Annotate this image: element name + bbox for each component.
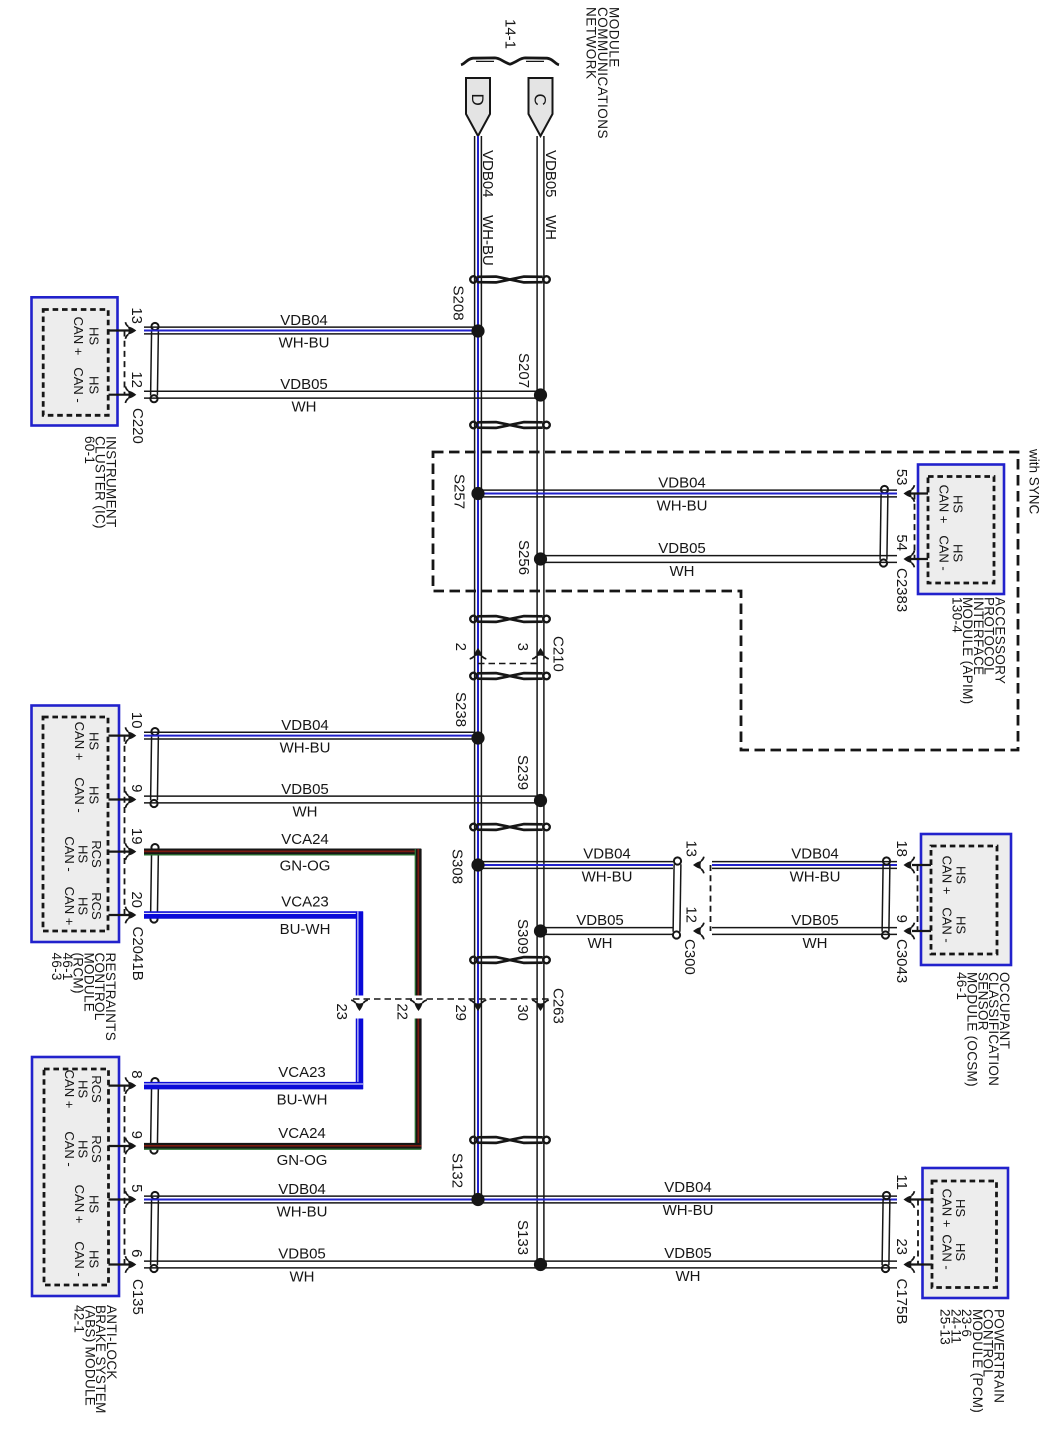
pin label ABS RCS HS CAN+ (62, 1070, 104, 1109)
connector label C175B (893, 1279, 910, 1325)
connector C220 symbol (150, 323, 158, 402)
label VCA23 (281, 894, 329, 911)
label VDB05 (280, 376, 328, 393)
label WH (670, 563, 695, 580)
label VDB04 (280, 312, 328, 329)
pin label OCSM HS CAN- (940, 907, 969, 942)
pin number 8 (ABS) (128, 1070, 145, 1078)
svg-text:VDB05: VDB05 (664, 1245, 712, 1262)
label VDB05 (576, 912, 624, 929)
pin number 9 (OCSM) (893, 915, 910, 923)
pin 13 stub (109, 329, 135, 331)
svg-text:13: 13 (128, 307, 145, 324)
splice label S238 (452, 692, 469, 727)
svg-text:S238: S238 (452, 692, 469, 727)
splice label S309 (514, 919, 531, 954)
label VDB04 (583, 846, 631, 863)
splice S208 (471, 324, 484, 337)
pin 9 arrow (ABS) (125, 1138, 136, 1155)
svg-text:18: 18 (893, 840, 910, 857)
wire VDB04 WH-BU (RCM pin10 to S238) (144, 732, 478, 739)
splice S257 (471, 487, 484, 500)
module name INSTRUMENT CLUSTER (IC) 60-1 (82, 436, 119, 529)
pin number 9 (ABS) (128, 1131, 145, 1139)
wire VDB05 WH (S309 to C300) (544, 928, 673, 935)
pin number 12 (128, 371, 145, 388)
svg-text:S257: S257 (451, 474, 468, 509)
twisted-pair symbol 3 (470, 616, 550, 623)
label WH-BU (280, 740, 331, 757)
wire VDB04 WH-BU (S257 to APIM pin53) (478, 490, 897, 497)
svg-text:BU-WH: BU-WH (280, 921, 331, 938)
svg-text:11: 11 (893, 1174, 910, 1190)
wire VCA23 BU-WH (ABS pin8, horizontal) (144, 1084, 363, 1086)
svg-text:S132: S132 (449, 1153, 466, 1188)
module box Instrument Cluster (IC) (32, 297, 118, 425)
label WH-BU (right) (663, 1202, 714, 1219)
svg-text:WH: WH (293, 804, 318, 821)
connector C300 symbol (673, 857, 681, 938)
label VDB04 (791, 846, 839, 863)
pin number 6 (ABS) (128, 1249, 145, 1257)
connector C3043 symbol (882, 857, 890, 938)
svg-text:23: 23 (893, 1238, 910, 1255)
svg-text:WH-BU: WH-BU (663, 1202, 714, 1219)
splice S133 (534, 1258, 547, 1271)
svg-text:S239: S239 (514, 755, 531, 790)
svg-text:8: 8 (128, 1070, 145, 1078)
svg-text:C2383: C2383 (893, 568, 910, 612)
svg-text:S207: S207 (515, 353, 532, 388)
pin 22 arrow (C263) (410, 1000, 427, 1011)
dashed pin line C300 (710, 865, 712, 931)
svg-text:19: 19 (128, 828, 145, 845)
svg-text:VDB04: VDB04 (664, 1179, 712, 1196)
connector label C2041B (129, 927, 146, 981)
svg-text:WH: WH (292, 399, 317, 416)
module name POWERTRAIN CONTROL MODULE (PCM) 23-6 24-11 25-13 (938, 1309, 1007, 1413)
pin number 13 (C300) (683, 840, 700, 857)
pin 12 arrow (C300) (693, 923, 704, 940)
svg-text:S133: S133 (514, 1220, 531, 1255)
splice S256 (534, 552, 547, 565)
pin number 13 (128, 307, 145, 324)
svg-text:S309: S309 (514, 919, 531, 954)
svg-text:VDB04: VDB04 (280, 312, 328, 329)
pin label RCM RCS HS CAN- (62, 836, 104, 871)
pin number 3 (514, 643, 531, 651)
svg-text:WH-BU: WH-BU (280, 740, 331, 757)
dashed region with SYNC (433, 452, 1018, 750)
pin number 2 (452, 643, 469, 651)
wire VDB05 WH (S256 to APIM pin54) (544, 556, 897, 563)
svg-text:WH-BU: WH-BU (657, 498, 708, 515)
pin 19 stub (109, 850, 135, 852)
svg-text:29: 29 (452, 1004, 469, 1021)
svg-text:22: 22 (394, 1003, 411, 1020)
twisted-pair symbol 2 (470, 422, 550, 429)
svg-text:VDB04: VDB04 (479, 150, 496, 198)
svg-text:WH: WH (542, 215, 559, 240)
connector label C263 (550, 988, 567, 1024)
label WH (right bus) (542, 215, 559, 240)
svg-text:WH: WH (803, 935, 828, 952)
svg-text:VDB04: VDB04 (658, 475, 706, 492)
label BU-WH (280, 921, 331, 938)
pin number 18 (893, 840, 910, 857)
splice S238 (471, 731, 484, 744)
pin label RCM HS CAN+ (72, 722, 102, 761)
label WH (right) (676, 1268, 701, 1285)
pin number 29 (C263) (452, 1004, 469, 1021)
svg-text:C210: C210 (550, 636, 567, 672)
label WH-BU (657, 498, 708, 515)
svg-text:9: 9 (128, 784, 145, 792)
module box PCM (923, 1168, 1009, 1298)
svg-text:30: 30 (514, 1004, 531, 1021)
connector label C220 (129, 408, 146, 444)
svg-text:10: 10 (128, 712, 145, 729)
pin number 9 (128, 784, 145, 792)
pin label PCM HS CAN- (940, 1234, 969, 1269)
pin 12 arrow (125, 386, 136, 403)
svg-text:VDB05: VDB05 (658, 540, 706, 557)
splice label S207 (515, 353, 532, 388)
wire VDB04 WH-BU (ABS pin5 through S132 to PCM pin11) (144, 1196, 897, 1203)
label WH-BU (582, 869, 633, 886)
wire VDB04 WH-BU (IC pin13 to S208) (144, 327, 478, 334)
pin 11 stub (910, 1198, 932, 1200)
splice S207 (534, 388, 547, 401)
pin 12 stub (109, 394, 135, 396)
svg-text:54: 54 (893, 534, 910, 551)
splice label S208 (450, 286, 467, 321)
svg-text:VDB04: VDB04 (278, 1181, 326, 1198)
pin number 19 (128, 828, 145, 845)
label VDB04 (left) (278, 1181, 326, 1198)
pin label IC HS CAN+ (71, 317, 102, 356)
svg-text:2: 2 (452, 643, 469, 651)
pin label ABS HS CAN+ (72, 1185, 102, 1224)
splice label S133 (514, 1220, 531, 1255)
svg-text:VCA24: VCA24 (281, 831, 329, 848)
connector label C210 (550, 636, 567, 672)
module box OCSM (921, 834, 1011, 965)
brace over connectors D and C (461, 58, 559, 65)
svg-text:9: 9 (893, 915, 910, 923)
wire VDB04 WH-BU (C300 to OCSM pin18) (712, 862, 897, 869)
splice S309 (534, 924, 547, 937)
pin 18 arrow (904, 857, 915, 874)
label VDB04 (right) (664, 1179, 712, 1196)
pin label ABS HS CAN- (72, 1241, 102, 1276)
svg-text:C2041B: C2041B (129, 927, 146, 981)
pin label OCSM HS CAN+ (940, 856, 969, 895)
label 14-1 (502, 19, 519, 49)
twisted-pair symbol 7 (470, 1137, 550, 1144)
svg-text:VDB04: VDB04 (281, 717, 329, 734)
pin number 54 (893, 534, 910, 551)
pin label APIM HS CAN+ (937, 485, 966, 524)
pin 3 arrow (C210) (532, 648, 549, 659)
pin 13 arrow (125, 322, 136, 339)
svg-text:5: 5 (128, 1184, 145, 1192)
connector C175B symbol (882, 1192, 890, 1272)
twisted-pair symbol 4 (470, 673, 550, 680)
svg-text:C: C (531, 94, 550, 106)
svg-text:13: 13 (683, 840, 700, 857)
pin number 5 (ABS) (128, 1184, 145, 1192)
splice label S308 (449, 849, 466, 884)
pin 53 arrow (904, 485, 915, 502)
label BU-WH (277, 1092, 328, 1109)
twisted-pair symbol 6 (470, 957, 550, 964)
pin 9 arrow (OCSM) (904, 923, 915, 940)
pin 20 stub (109, 914, 135, 916)
module name ANTI-LOCK BRAKE SYSTEM (ABS) MODULE 42-1 (72, 1305, 119, 1414)
wire bus VDB04 WH-BU (left vertical) (475, 136, 482, 1200)
dashed pin line C220 (124, 331, 126, 395)
module name ACCESSORY PROTOCOL INTERFACE MODULE (APIM) 130-4 (949, 597, 1007, 704)
label VCA23 (278, 1064, 326, 1081)
wire VDB05 WH (C300 to OCSM pin9) (712, 928, 897, 935)
pin label APIM HS CAN- (937, 535, 966, 570)
connector C (529, 78, 553, 136)
pin 23 arrow (PCM) (904, 1256, 915, 1273)
pin 30 arrow (C263) (532, 1000, 549, 1011)
pin number 30 (C263) (514, 1004, 531, 1021)
svg-text:23: 23 (333, 1003, 350, 1020)
label VDB05 (658, 540, 706, 557)
wire VDB05 WH (RCM pin9 to S239) (144, 796, 537, 803)
label WH-BU (279, 335, 330, 352)
dashed pin line C175B (917, 1200, 919, 1265)
label VDB04 (658, 475, 706, 492)
pin number 23 (C263) (333, 1003, 350, 1020)
wire VCA24 GN-OG (ABS pin9, horizontal) (144, 1146, 421, 1149)
svg-text:C135: C135 (129, 1279, 146, 1315)
pin number 20 (128, 891, 145, 908)
svg-text:C175B: C175B (893, 1279, 910, 1325)
label VDB05 (left) (278, 1246, 326, 1263)
module box Restraints Control Module (RCM) (32, 706, 120, 943)
connector C2383 symbol (880, 486, 888, 567)
module box ABS (32, 1057, 119, 1296)
svg-text:WH: WH (670, 563, 695, 580)
wire VCA23 BU-WH (RCM pin20, horizontal) (144, 913, 363, 915)
wire bus VDB05 WH (right vertical) (537, 136, 544, 1265)
svg-text:C220: C220 (129, 408, 146, 444)
splice label S132 (449, 1153, 466, 1188)
label VDB04 (281, 717, 329, 734)
splice label S256 (515, 540, 532, 575)
svg-text:WH-BU: WH-BU (279, 335, 330, 352)
pin label IC HS CAN- (71, 367, 102, 402)
connector label C135 (129, 1279, 146, 1315)
connector C135 symbol lower (150, 1192, 158, 1272)
dashed pin line C135 (124, 1086, 126, 1265)
wire VDB05 WH (ABS pin6 through S133 to PCM pin23) (144, 1261, 897, 1268)
svg-text:S208: S208 (450, 286, 467, 321)
dashed connector line C263 (353, 998, 549, 1000)
wire VDB04 WH-BU (S308 to C300) (478, 862, 673, 869)
svg-text:VCA24: VCA24 (278, 1125, 326, 1142)
connector label C300 (681, 939, 698, 975)
wire VCA24 GN-OG (RCM pin19, horizontal) (144, 851, 421, 854)
svg-text:VCA23: VCA23 (281, 894, 329, 911)
label with SYNC (1027, 448, 1042, 515)
pin 6 arrow (ABS) (125, 1256, 136, 1273)
label VCA24 (278, 1125, 326, 1142)
svg-text:9: 9 (128, 1131, 145, 1139)
twisted-pair symbol 1 (470, 276, 550, 283)
pin 9 stub (OCSM) (912, 930, 931, 932)
svg-text:20: 20 (128, 891, 145, 908)
svg-text:VDB05: VDB05 (281, 781, 329, 798)
connector D (466, 78, 490, 136)
label WH (803, 935, 828, 952)
svg-text:GN-OG: GN-OG (280, 858, 331, 875)
pin 9 stub (109, 798, 135, 800)
dashed pin line C3043 (917, 865, 919, 931)
svg-text:12: 12 (128, 371, 145, 388)
svg-text:S256: S256 (515, 540, 532, 575)
svg-text:VDB05: VDB05 (280, 376, 328, 393)
connector C2041B symbol upper (150, 728, 158, 807)
svg-text:VDB05: VDB05 (791, 912, 839, 929)
connector label C3043 (893, 939, 910, 983)
pin 23 arrow (C263) (351, 1000, 368, 1011)
pin 8 stub (ABS) (109, 1084, 135, 1086)
svg-text:WH: WH (676, 1268, 701, 1285)
label VDB05 (791, 912, 839, 929)
svg-text:WH: WH (290, 1269, 315, 1286)
label WH (588, 935, 613, 952)
splice S239 (534, 794, 547, 807)
pin 19 arrow (125, 843, 136, 860)
pin 54 arrow (904, 551, 915, 568)
wire VCA24 vertical segment (415, 849, 418, 1149)
svg-text:WH-BU: WH-BU (582, 869, 633, 886)
pin number 11 (893, 1174, 910, 1190)
pin label RCM RCS HS CAN+ (62, 887, 104, 926)
pin 9 stub (ABS) (109, 1145, 135, 1147)
pin number 53 (893, 469, 910, 486)
dashed connector line C210 (478, 663, 541, 665)
module box APIM (918, 465, 1004, 595)
pin 54 stub (909, 558, 928, 560)
pin 23 stub (PCM) (910, 1263, 932, 1265)
pin number 12 (C300) (683, 906, 700, 923)
splice label S239 (514, 755, 531, 790)
svg-text:WH-BU: WH-BU (790, 869, 841, 886)
svg-text:6: 6 (128, 1249, 145, 1257)
white gap for VCA24 at C263 (414, 1002, 423, 1017)
svg-text:53: 53 (893, 469, 910, 486)
svg-text:WH-BU: WH-BU (479, 215, 496, 266)
label WH (left) (290, 1269, 315, 1286)
svg-text:C300: C300 (681, 939, 698, 975)
module name RESTRAINTS CONTROL MODULE (RCM) 46-1 46-3 (49, 953, 118, 1042)
pin 2 arrow (C210) (470, 648, 487, 659)
connector C135 symbol upper (150, 1078, 158, 1154)
svg-text:WH-BU: WH-BU (277, 1204, 328, 1221)
pin 9 arrow (125, 791, 136, 808)
pin 53 stub (909, 492, 928, 494)
svg-text:BU-WH: BU-WH (277, 1092, 328, 1109)
splice label S257 (451, 474, 468, 509)
pin 5 stub (ABS) (109, 1198, 135, 1200)
svg-text:14-1: 14-1 (502, 19, 519, 49)
label WH (293, 804, 318, 821)
label VDB05 (right) (664, 1245, 712, 1262)
label WH (292, 399, 317, 416)
module name OCCUPANT CLASSIFICATION SENSOR MODULE (OCSM) 46-1 (954, 972, 1012, 1087)
pin 10 stub (109, 734, 135, 736)
svg-text:with SYNC: with SYNC (1027, 448, 1042, 515)
label VDB05 (right bus) (542, 150, 559, 198)
svg-text:VDB04: VDB04 (583, 846, 631, 863)
svg-text:GN-OG: GN-OG (277, 1152, 328, 1169)
pin number 10 (128, 712, 145, 729)
svg-text:WH: WH (588, 935, 613, 952)
pin label RCM HS CAN- (72, 777, 102, 812)
label GN-OG (280, 858, 331, 875)
svg-text:VDB05: VDB05 (278, 1246, 326, 1263)
pin 8 arrow (ABS) (125, 1077, 136, 1094)
connector C2041B symbol lower (150, 844, 158, 923)
svg-text:VDB04: VDB04 (791, 846, 839, 863)
pin number 23 (PCM) (893, 1238, 910, 1255)
wire VCA23 vertical segment (358, 912, 360, 1090)
pin 29 arrow (C263) (470, 1000, 487, 1011)
pin label ABS RCS HS CAN- (62, 1131, 104, 1166)
pin label PCM HS CAN+ (940, 1189, 969, 1228)
pin 20 arrow (125, 907, 136, 924)
wire VDB05 WH (IC pin12 to S207) (144, 391, 537, 398)
splice S132 (471, 1193, 484, 1206)
dashed pin line C2383 (914, 494, 916, 560)
label WH-BU (790, 869, 841, 886)
white gap for VCA23 at C263 (355, 1002, 364, 1017)
label VCA24 (281, 831, 329, 848)
svg-text:C3043: C3043 (893, 939, 910, 983)
pin 18 stub (912, 864, 931, 866)
pin 13 arrow (C300) (693, 857, 704, 874)
pin number 22 (C263) (394, 1003, 411, 1020)
svg-text:VCA23: VCA23 (278, 1064, 326, 1081)
svg-text:VDB05: VDB05 (576, 912, 624, 929)
dashed pin line C2041B (124, 736, 126, 915)
label VDB04 (left bus) (479, 150, 496, 198)
pin 11 arrow (904, 1191, 915, 1208)
twisted-pair symbol 5 (470, 824, 550, 831)
pin 10 arrow (125, 727, 136, 744)
label GN-OG (277, 1152, 328, 1169)
pin 5 arrow (ABS) (125, 1191, 136, 1208)
label WH-BU (left bus) (479, 215, 496, 266)
svg-text:D: D (468, 94, 487, 106)
connector label C2383 (893, 568, 910, 612)
splice S308 (471, 858, 484, 871)
label WH-BU (left) (277, 1204, 328, 1221)
svg-text:3: 3 (514, 643, 531, 651)
svg-text:VDB05: VDB05 (542, 150, 559, 198)
pin 6 stub (ABS) (109, 1263, 135, 1265)
svg-text:S308: S308 (449, 849, 466, 884)
label VDB05 (281, 781, 329, 798)
svg-text:12: 12 (683, 906, 700, 923)
